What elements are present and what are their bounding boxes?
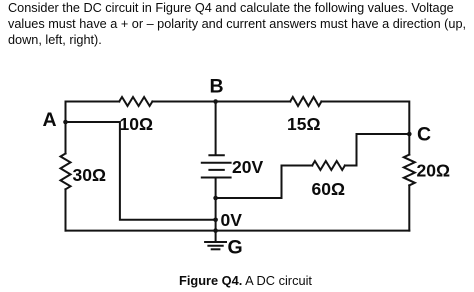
wire right rail lower 20-ohm to bottom rail	[408, 185, 410, 230]
battery 20V plates	[202, 155, 231, 177]
resistor 10R	[119, 97, 152, 106]
wire battery bottom to ground junction	[215, 178, 217, 231]
node B	[213, 99, 218, 104]
wire right rail C to 20-ohm	[408, 134, 410, 155]
svg-text:20Ω: 20Ω	[417, 161, 451, 181]
wire B down to battery top	[215, 102, 217, 155]
wire bottom rail	[66, 230, 410, 232]
resistor 15R	[290, 97, 321, 106]
wire top-right segment 15-ohm to right rail corner	[321, 102, 409, 135]
svg-text:B: B	[210, 76, 224, 98]
wire 60-ohm to node C: right, up, right	[345, 134, 409, 166]
wire left rail upper A to 30-ohm	[65, 122, 67, 154]
node A	[63, 120, 68, 125]
wire top-left segment A corner to 10-ohm	[66, 102, 120, 123]
svg-text:30Ω: 30Ω	[73, 165, 107, 185]
wire left rail lower 30-ohm to bottom rail	[65, 189, 67, 230]
svg-text:0V: 0V	[221, 210, 243, 230]
svg-text:G: G	[228, 236, 243, 258]
wire 60-ohm branch: junction right, up, right	[216, 166, 313, 199]
svg-text:C: C	[417, 123, 431, 145]
svg-text:20V: 20V	[232, 157, 263, 177]
resistor 60R	[312, 161, 345, 170]
node C	[407, 132, 412, 137]
svg-text:60Ω: 60Ω	[312, 179, 346, 199]
node A branch wire: A right, down, right to 0V junction	[66, 122, 216, 220]
junction node ground on bottom rail	[213, 228, 218, 233]
resistor 20R	[404, 155, 415, 186]
svg-text:10Ω: 10Ω	[120, 114, 154, 134]
svg-text:15Ω: 15Ω	[287, 114, 321, 134]
ground G	[205, 231, 226, 250]
junction node battery to 60-ohm branch	[213, 196, 218, 201]
svg-text:A: A	[43, 109, 57, 131]
junction node 0V	[213, 218, 218, 223]
wire top middle 10-ohm to 15-ohm through node B	[152, 101, 290, 103]
resistor 30R	[61, 154, 71, 190]
